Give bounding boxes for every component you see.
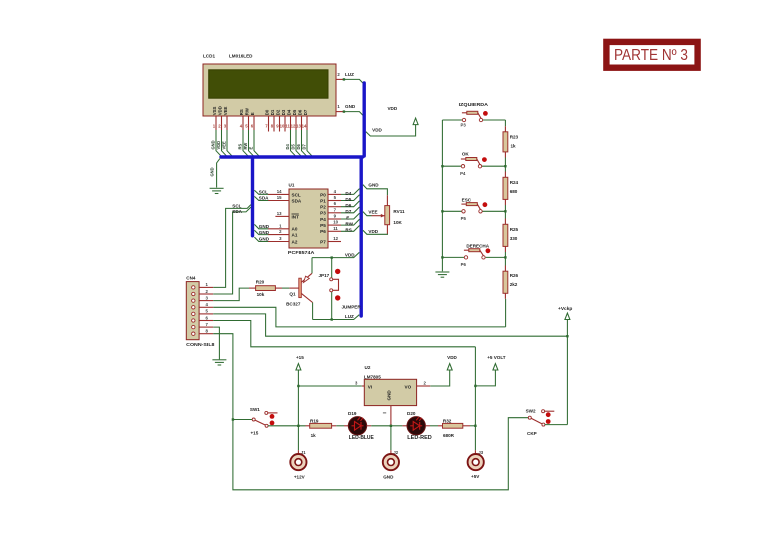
svg-text:P5: P5 — [461, 216, 467, 221]
svg-text:1k: 1k — [311, 433, 317, 438]
svg-text:SCL: SCL — [232, 203, 241, 208]
svg-text:P4: P4 — [460, 171, 466, 176]
svg-text:SW2: SW2 — [526, 408, 536, 413]
svg-text:RW: RW — [345, 222, 353, 227]
svg-text:14: 14 — [277, 189, 282, 194]
svg-text:R19: R19 — [310, 418, 319, 423]
svg-text:GND: GND — [259, 230, 270, 235]
svg-text:14: 14 — [302, 124, 307, 129]
svg-text:D6: D6 — [298, 109, 303, 115]
svg-text:P3: P3 — [320, 211, 326, 216]
svg-text:D7: D7 — [345, 209, 351, 214]
svg-text:+5V: +5V — [471, 474, 480, 479]
svg-text:GND: GND — [387, 390, 392, 401]
svg-text:CN4: CN4 — [186, 275, 196, 280]
svg-text:RW: RW — [245, 107, 250, 115]
svg-text:13: 13 — [277, 211, 282, 216]
svg-text:VEE: VEE — [223, 106, 228, 115]
svg-text:P3: P3 — [461, 122, 467, 127]
svg-text:D6: D6 — [296, 144, 301, 150]
svg-text:A0: A0 — [292, 227, 298, 232]
svg-text:LUZ: LUZ — [345, 72, 354, 77]
svg-text:SCL: SCL — [259, 190, 268, 195]
svg-text:15: 15 — [277, 195, 282, 200]
svg-text:SDA: SDA — [259, 196, 269, 201]
svg-text:+5 VOLT: +5 VOLT — [487, 355, 506, 360]
svg-text:VDD: VDD — [368, 229, 378, 234]
svg-text:D6: D6 — [345, 203, 351, 208]
svg-text:U1: U1 — [289, 183, 295, 188]
svg-text:GND: GND — [345, 104, 356, 109]
svg-text:R20: R20 — [256, 279, 265, 284]
svg-text:D2: D2 — [276, 109, 281, 115]
svg-text:VDD: VDD — [387, 106, 397, 111]
svg-text:GND: GND — [259, 237, 270, 242]
svg-text:SW1: SW1 — [250, 407, 260, 412]
svg-text:D7: D7 — [303, 109, 308, 115]
svg-text:10k: 10k — [257, 292, 265, 297]
svg-text:R26: R26 — [510, 273, 519, 278]
svg-text:R25: R25 — [510, 227, 519, 232]
svg-text:LED-RED: LED-RED — [407, 435, 432, 441]
svg-text:GND: GND — [368, 183, 379, 188]
svg-text:GND: GND — [259, 224, 270, 229]
svg-text:10K: 10K — [393, 220, 402, 225]
svg-text:PARTE Nº 3: PARTE Nº 3 — [614, 47, 688, 64]
svg-text:Q1: Q1 — [289, 292, 296, 297]
svg-text:D4: D4 — [285, 144, 290, 150]
svg-text:D4: D4 — [345, 191, 351, 196]
svg-text:P5: P5 — [320, 223, 326, 228]
svg-text:1k: 1k — [511, 143, 517, 148]
svg-text:P2: P2 — [320, 205, 326, 210]
svg-text:10: 10 — [333, 220, 338, 225]
svg-text:E: E — [249, 147, 254, 150]
svg-text:CKP: CKP — [527, 431, 537, 436]
svg-text:VSS: VSS — [212, 106, 217, 115]
svg-text:JP17: JP17 — [319, 273, 330, 278]
svg-text:D7: D7 — [302, 144, 307, 150]
svg-text:VO: VO — [405, 384, 412, 389]
svg-text:OK: OK — [462, 151, 470, 156]
svg-text:LM7805: LM7805 — [364, 374, 381, 379]
svg-text:SDA: SDA — [292, 198, 302, 203]
svg-text:D3: D3 — [281, 109, 286, 115]
svg-text:RS: RS — [238, 144, 243, 150]
svg-text:VDD: VDD — [218, 106, 223, 115]
svg-text:P1: P1 — [320, 198, 326, 203]
svg-text:10: 10 — [280, 124, 285, 129]
svg-text:D0: D0 — [265, 109, 270, 115]
svg-text:+Vckp: +Vckp — [558, 306, 572, 312]
svg-text:D5: D5 — [292, 109, 297, 115]
svg-text:IZQUIERDA: IZQUIERDA — [459, 102, 489, 107]
svg-text:ESC: ESC — [462, 197, 472, 202]
svg-text:11: 11 — [333, 226, 338, 231]
svg-text:U2: U2 — [365, 365, 371, 370]
svg-text:INT: INT — [292, 214, 300, 219]
svg-text:PCF8574A: PCF8574A — [288, 250, 315, 255]
svg-text:+15: +15 — [251, 430, 259, 435]
svg-text:680: 680 — [510, 189, 518, 194]
svg-text:VDD: VDD — [372, 128, 382, 133]
svg-text:D5: D5 — [291, 144, 296, 150]
svg-text:+12V: +12V — [294, 474, 306, 479]
svg-text:P0: P0 — [320, 192, 326, 197]
svg-text:E: E — [346, 215, 349, 220]
svg-text:RS: RS — [239, 109, 244, 115]
svg-text:BC327: BC327 — [286, 302, 301, 307]
svg-text:LM016LED: LM016LED — [229, 54, 253, 59]
svg-text:JUMPER: JUMPER — [342, 304, 362, 309]
svg-text:GND: GND — [383, 474, 394, 479]
svg-text:P7: P7 — [320, 239, 326, 244]
svg-text:GND: GND — [209, 167, 214, 176]
svg-text:R32: R32 — [443, 418, 452, 423]
svg-text:DERECHA: DERECHA — [466, 243, 489, 248]
svg-text:680R: 680R — [443, 433, 455, 438]
svg-text:A2: A2 — [292, 239, 298, 244]
svg-text:330: 330 — [510, 236, 518, 241]
svg-text:VEE: VEE — [368, 209, 377, 214]
svg-text:CONN-SIL8: CONN-SIL8 — [186, 342, 215, 347]
svg-text:VDD: VDD — [345, 252, 355, 257]
svg-text:P6: P6 — [461, 262, 467, 267]
svg-text:E: E — [250, 112, 255, 115]
svg-text:RS: RS — [345, 228, 351, 233]
svg-text:LCD1: LCD1 — [203, 54, 215, 59]
svg-text:R24: R24 — [510, 180, 519, 185]
svg-text:2k2: 2k2 — [510, 282, 518, 287]
svg-text:P4: P4 — [320, 217, 326, 222]
svg-text:P6: P6 — [320, 229, 326, 234]
svg-text:LUZ: LUZ — [345, 314, 354, 319]
svg-text:D1: D1 — [270, 109, 275, 115]
svg-text:VEE: VEE — [222, 141, 227, 149]
svg-text:D20: D20 — [407, 411, 416, 416]
svg-text:12: 12 — [333, 236, 338, 241]
svg-text:VDD: VDD — [447, 355, 457, 360]
svg-text:D5: D5 — [345, 197, 351, 202]
svg-text:R23: R23 — [510, 134, 519, 139]
svg-text:D4: D4 — [287, 109, 292, 115]
svg-text:SCL: SCL — [292, 192, 301, 197]
svg-text:GND: GND — [211, 140, 216, 149]
svg-text:LED-BLUE: LED-BLUE — [349, 435, 375, 441]
svg-text:D19: D19 — [348, 411, 357, 416]
svg-text:A1: A1 — [292, 233, 298, 238]
svg-text:+15: +15 — [296, 355, 304, 360]
svg-text:RW: RW — [243, 143, 248, 150]
svg-text:SDA: SDA — [232, 209, 242, 214]
svg-text:VDD: VDD — [216, 141, 221, 150]
svg-text:RV11: RV11 — [393, 209, 405, 214]
svg-text:VI: VI — [368, 384, 372, 389]
